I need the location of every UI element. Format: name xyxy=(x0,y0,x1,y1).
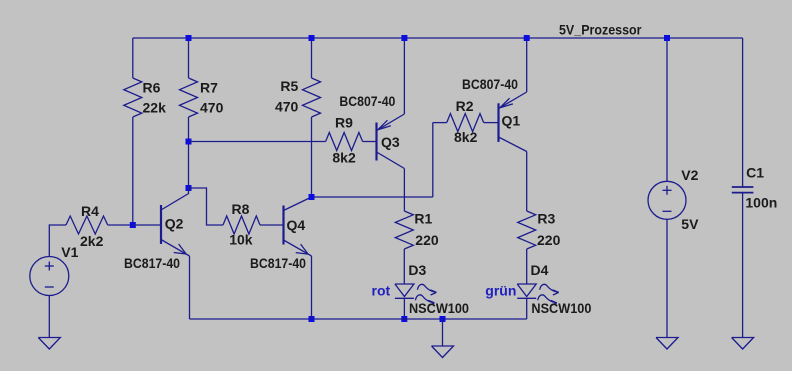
wire Q4 collector node to R2 riser xyxy=(312,196,433,198)
svg-text:R6: R6 xyxy=(143,80,161,96)
wire R5 bottom lead xyxy=(311,117,313,197)
node R5 top junction xyxy=(309,35,315,41)
wire R7 bottom to Q2 collector node xyxy=(188,117,190,188)
node Q4 emitter junction xyxy=(309,316,315,322)
svg-text:Q4: Q4 xyxy=(287,217,306,233)
svg-text:V2: V2 xyxy=(681,167,698,183)
node D3 ground rail junction xyxy=(401,316,407,322)
svg-text:5V_Prozessor: 5V_Prozessor xyxy=(559,21,642,37)
transistor Q2 emitter xyxy=(161,240,190,257)
ground V1 xyxy=(38,338,60,350)
transistor Q3 collector xyxy=(377,152,405,169)
node V2 rail junction xyxy=(664,35,670,41)
wire R1 to D3 xyxy=(403,249,405,284)
svg-text:5V: 5V xyxy=(681,216,699,232)
node ground stub junction xyxy=(440,316,446,322)
wire V1 top xyxy=(49,225,66,257)
svg-text:R7: R7 xyxy=(200,80,218,96)
wire R5 top lead xyxy=(311,38,313,78)
resistor R2 xyxy=(447,114,484,132)
wire R6 top lead xyxy=(132,38,134,78)
svg-text:BC807-40: BC807-40 xyxy=(462,76,518,92)
transistor Q4 emitter xyxy=(284,240,312,256)
transistor Q2 base bar xyxy=(160,205,162,244)
voltage source V2 xyxy=(648,181,686,219)
wire ground rail xyxy=(190,318,527,320)
svg-text:R8: R8 xyxy=(232,201,250,217)
wire Q2 emitter to ground rail xyxy=(189,256,191,319)
capacitor C1 xyxy=(732,186,754,188)
svg-text:Q1: Q1 xyxy=(502,113,521,129)
svg-text:8k2: 8k2 xyxy=(454,129,478,145)
svg-text:R9: R9 xyxy=(335,115,353,131)
wire C1 top xyxy=(742,38,744,187)
transistor Q4 base bar xyxy=(282,206,284,245)
resistor R8 xyxy=(223,216,260,234)
LED D3 xyxy=(395,284,414,297)
wire Q3 collector to R1 xyxy=(403,169,405,212)
svg-text:Q3: Q3 xyxy=(381,134,400,150)
node Q4 collector junction xyxy=(309,194,315,200)
LED D4 xyxy=(517,284,536,297)
svg-text:C1: C1 xyxy=(746,165,764,181)
resistor R5 xyxy=(303,78,321,117)
node Q1 emitter rail junction xyxy=(524,35,530,41)
wire V2 bottom xyxy=(666,219,668,337)
svg-text:8k2: 8k2 xyxy=(332,150,356,166)
wire V1 bottom xyxy=(48,296,50,338)
svg-text:grün: grün xyxy=(485,283,516,299)
svg-text:2k2: 2k2 xyxy=(80,233,104,249)
svg-text:R5: R5 xyxy=(280,78,298,94)
wire Q2 collector to R8 xyxy=(189,188,224,225)
ground C1 xyxy=(732,338,754,350)
svg-text:BC817-40: BC817-40 xyxy=(124,255,180,271)
transistor Q3 emitter xyxy=(377,114,405,131)
wire R8 to Q4 base xyxy=(260,224,284,226)
ground center xyxy=(432,346,454,358)
svg-text:NSCW100: NSCW100 xyxy=(531,300,591,316)
svg-text:470: 470 xyxy=(200,100,224,116)
svg-text:V1: V1 xyxy=(61,244,78,260)
svg-text:R1: R1 xyxy=(414,211,432,227)
wire R4 to base node xyxy=(108,224,133,226)
svg-text:Q2: Q2 xyxy=(165,216,184,232)
svg-text:22k: 22k xyxy=(143,100,167,116)
node R7 bottom / R9 junction xyxy=(186,139,192,145)
wire D3 cathode to ground rail xyxy=(403,298,405,319)
transistor Q1 emitter xyxy=(499,92,527,109)
svg-text:rot: rot xyxy=(372,283,391,299)
resistor R9 xyxy=(326,133,363,151)
wire R7 top lead xyxy=(188,38,190,78)
wire V2 top xyxy=(666,38,668,181)
transistor Q3 base bar xyxy=(375,123,377,161)
svg-text:470: 470 xyxy=(275,99,299,115)
wire C1 bottom xyxy=(742,193,744,338)
resistor R4 xyxy=(66,216,108,234)
svg-text:BC807-40: BC807-40 xyxy=(339,93,395,109)
wire D4 cathode to ground rail xyxy=(526,298,528,319)
transistor Q1 base bar xyxy=(497,103,499,142)
node Q2 base junction xyxy=(130,222,136,228)
wire Q3 emitter to rail xyxy=(403,38,405,114)
svg-text:220: 220 xyxy=(537,232,561,248)
svg-text:100n: 100n xyxy=(745,195,777,211)
svg-text:NSCW100: NSCW100 xyxy=(409,300,469,316)
svg-text:10k: 10k xyxy=(229,232,253,248)
transistor Q1 collector xyxy=(499,137,527,152)
wire R2 left lead xyxy=(433,122,447,124)
wire ground stub xyxy=(442,319,444,346)
ground V2 xyxy=(656,338,678,350)
transistor Q2 collector xyxy=(161,188,189,210)
node R7 top junction xyxy=(186,35,192,41)
svg-text:BC817-40: BC817-40 xyxy=(250,255,306,271)
wire R2 to Q1 base xyxy=(484,122,499,124)
svg-text:D4: D4 xyxy=(531,262,549,278)
resistor R3 xyxy=(518,211,536,249)
node Q3 emitter rail junction xyxy=(401,35,407,41)
wire Q1 collector to R3 xyxy=(526,152,528,212)
svg-text:R2: R2 xyxy=(456,98,474,114)
wire R6 bottom to base node xyxy=(132,117,134,225)
transistor Q4 collector xyxy=(284,197,312,211)
wire R9 base feed xyxy=(189,141,326,143)
svg-text:R4: R4 xyxy=(81,203,99,219)
wire 5V rail xyxy=(133,37,743,39)
wire R3 to D4 xyxy=(526,249,528,284)
node Q2 collector junction xyxy=(186,185,192,191)
resistor R1 xyxy=(395,211,413,249)
svg-text:220: 220 xyxy=(415,232,439,248)
resistor R7 xyxy=(180,78,198,117)
svg-text:R3: R3 xyxy=(537,211,555,227)
wire base node to Q2 xyxy=(133,224,161,226)
wire R2 riser xyxy=(432,123,434,197)
voltage source V1 xyxy=(30,257,69,296)
wire Q1 emitter to rail xyxy=(526,38,528,92)
wire R9 to Q3 base xyxy=(363,141,377,143)
resistor R6 xyxy=(124,78,142,117)
wire Q4 emitter to ground rail xyxy=(311,256,313,319)
svg-text:D3: D3 xyxy=(408,262,426,278)
